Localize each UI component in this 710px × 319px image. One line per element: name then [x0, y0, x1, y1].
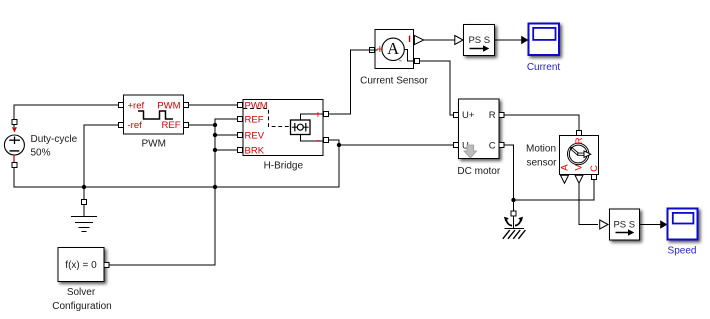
- svg-text:50%: 50%: [31, 147, 51, 158]
- wire H-Bridge + to Current Sensor +: [329, 50, 371, 114]
- H-Bridge port BRK (input): [238, 148, 243, 153]
- PWM block port labels: [128, 101, 181, 131]
- PS-Simulink converter 1: [464, 25, 495, 56]
- label Solver Configuration: [52, 287, 111, 312]
- wire simulink signal: PS-S 1 to Current scope: [495, 39, 522, 41]
- svg-text:PS S: PS S: [468, 35, 490, 46]
- junction: ground bus at electrical reference branch: [82, 185, 86, 189]
- wire -ref net: bus riser x=84 to PWM -ref: [84, 125, 119, 187]
- PWM block port -ref (input): [119, 123, 124, 128]
- junction: REF net to BRK stub: [213, 148, 217, 152]
- mechanical rotational reference: [503, 216, 526, 239]
- junction: REF net to REV stub: [213, 133, 217, 137]
- wire PS signal: sensor I to PS-S converter 1: [423, 39, 456, 41]
- svg-text:A: A: [559, 164, 570, 171]
- svg-text:Configuration: Configuration: [52, 301, 111, 312]
- PWM block: [124, 95, 184, 134]
- H-Bridge port PWM (input): [238, 103, 243, 108]
- Current scope block: [529, 23, 560, 55]
- svg-text:Solver: Solver: [67, 287, 96, 298]
- svg-text:sensor: sensor: [526, 157, 557, 168]
- H-Bridge port REF (input): [238, 117, 243, 122]
- wire PWM signal: PWM block out to H-Bridge PWM in: [189, 104, 238, 106]
- Solver Configuration block: [58, 248, 104, 282]
- svg-text:REV: REV: [245, 130, 265, 141]
- svg-text:BRK: BRK: [245, 145, 265, 156]
- svg-text:C: C: [589, 165, 600, 172]
- Motion sensor block: [560, 136, 599, 175]
- wire +ref net: source top to PWM +ref: [14, 105, 119, 127]
- Current Sensor I output triangle: [414, 35, 423, 44]
- H-Bridge port + (output): [324, 112, 329, 117]
- H-Bridge port - (output): [324, 138, 329, 143]
- svg-text:Duty-cycle: Duty-cycle: [31, 134, 78, 145]
- svg-text:REF: REF: [162, 120, 181, 131]
- svg-text:A: A: [387, 39, 399, 58]
- PS-Simulink converter 2: [610, 209, 640, 240]
- Solver Configuration port: [104, 263, 109, 268]
- svg-text:PWM: PWM: [245, 101, 268, 112]
- wire through Current Sensor + port: [369, 49, 378, 51]
- Speed scope block: [668, 209, 698, 240]
- voltage source top port: [12, 120, 17, 125]
- svg-text:Current: Current: [527, 62, 561, 73]
- svg-text:-: -: [399, 56, 402, 67]
- Motion sensor V output triangle: [575, 175, 583, 183]
- H-Bridge port labels: [245, 101, 322, 157]
- DC motor port R: [499, 113, 504, 118]
- label Duty-cycle 50%: [31, 134, 78, 158]
- svg-text:+ref: +ref: [128, 101, 145, 112]
- svg-text:-ref: -ref: [128, 120, 143, 131]
- svg-text:+: +: [315, 109, 321, 121]
- svg-text:R: R: [489, 110, 496, 121]
- svg-text:PS S: PS S: [613, 219, 635, 230]
- DC motor port U-: [454, 143, 459, 148]
- PWM block port PWM (output): [184, 103, 189, 108]
- arrowhead into Current scope: [521, 36, 528, 44]
- Motion sensor A unconnected triangle: [561, 175, 569, 183]
- DC motor port U+: [454, 113, 459, 118]
- junction: ground bus at REF/solver branch: [213, 185, 217, 189]
- svg-text:REF: REF: [245, 114, 264, 125]
- svg-text:PWM: PWM: [157, 101, 180, 112]
- svg-text:I: I: [408, 34, 411, 45]
- svg-text:R: R: [574, 137, 585, 144]
- mechanical reference port: [511, 211, 516, 216]
- voltage source V (Duty-cycle 50%): [4, 127, 24, 162]
- junction: PWM REF output joins REF net: [213, 123, 217, 127]
- wire bottom bus: source minus along y=187 to H-Bridge minus riser: [14, 145, 339, 187]
- DC motor port C: [499, 143, 504, 148]
- Motion sensor C port: [592, 175, 597, 180]
- svg-text:DC motor: DC motor: [457, 166, 500, 177]
- Motion sensor rotated port labels: [559, 137, 600, 172]
- wire DC motor C to mech reference junction: [504, 145, 514, 211]
- svg-text:PWM: PWM: [141, 139, 165, 150]
- voltage source bottom port: [12, 163, 17, 168]
- PWM block port +ref (input): [119, 103, 124, 108]
- DC motor block: [459, 99, 500, 159]
- junction: H-Bridge minus / DC motor U- / ground bus: [337, 143, 341, 147]
- Current Sensor + port: [370, 48, 375, 53]
- electrical reference ground: [71, 187, 97, 232]
- wire Current Sensor - to DC motor U+: [419, 61, 454, 115]
- wire H-Bridge - jog to junction and to DC motor U-: [329, 140, 454, 145]
- svg-text:C: C: [489, 140, 496, 151]
- svg-text:V: V: [573, 164, 584, 171]
- PS input triangle before PS-S 1: [455, 36, 463, 45]
- electrical reference port: [82, 200, 87, 205]
- wire DC motor R to Motion sensor R: [504, 115, 579, 131]
- label Motion sensor: [526, 143, 557, 168]
- Current Sensor block: [372, 30, 414, 69]
- PS input triangle before PS-S 2: [600, 220, 608, 229]
- Current Sensor - port: [414, 59, 419, 64]
- svg-text:U+: U+: [462, 110, 475, 121]
- svg-text:Motion: Motion: [526, 143, 556, 154]
- Motion sensor R port: [577, 131, 582, 136]
- svg-text:Current Sensor: Current Sensor: [360, 76, 428, 87]
- svg-text:H-Bridge: H-Bridge: [264, 160, 304, 171]
- wire REF net: PWM REF out, vertical x=215, stubs to REF REV BRK, down to Solver: [109, 119, 238, 265]
- svg-text:-: -: [316, 135, 320, 147]
- junction: DC motor C / Motion sensor C / mechanical reference: [511, 198, 515, 202]
- wire Motion sensor C down to junction: [514, 180, 595, 201]
- svg-text:f(x) = 0: f(x) = 0: [65, 260, 97, 271]
- H-Bridge block: [243, 100, 323, 156]
- arrowhead into Speed scope: [660, 220, 667, 228]
- PWM block port REF (output): [184, 123, 189, 128]
- wire simulink signal: PS-S 2 to Speed scope: [640, 224, 661, 226]
- wire Motion sensor V to PS-S converter 2: [579, 183, 598, 225]
- svg-text:Speed: Speed: [668, 246, 697, 257]
- H-Bridge port REV (input): [238, 133, 243, 138]
